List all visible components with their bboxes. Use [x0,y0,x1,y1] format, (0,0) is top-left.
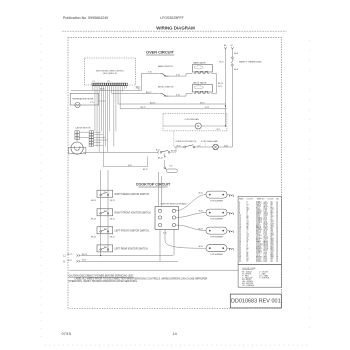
svg-text:R-75: R-75 [205,107,209,109]
svg-text:TOP BURNER: TOP BURNER [210,237,224,239]
svg-text:Y-75: Y-75 [169,165,172,167]
svg-text:Publication No. 5995664249: Publication No. 5995664249 [63,16,108,20]
svg-text:W-25: W-25 [199,228,203,230]
svg-text:W-75: W-75 [82,260,86,262]
svg-text:BK: BK [224,45,227,47]
svg-text:W-25: W-25 [199,210,203,212]
svg-text:W2: W2 [271,261,273,263]
svg-text:4-75: 4-75 [176,75,180,77]
svg-text:LEFT REAR IGNITOR SWITCH.: LEFT REAR IGNITOR SWITCH. [115,248,149,251]
svg-text:RIGHT REAR IGNITOR SWITCH.: RIGHT REAR IGNITOR SWITCH. [115,193,150,196]
svg-text:M: M [197,125,199,128]
svg-text:P2: P2 [108,81,110,83]
svg-text:L1: L1 [63,256,66,258]
svg-text:LABEL ALL WIRES PRIOR TO DISCO: LABEL ALL WIRES PRIOR TO DISCONNECTION W… [75,277,208,280]
svg-text:14: 14 [276,261,278,263]
svg-text:BK-25: BK-25 [91,237,96,239]
svg-text:DD010683 REV 001: DD010683 REV 001 [231,299,281,305]
svg-text:Y-75: Y-75 [148,71,152,73]
svg-text:BROIL VALVE: BROIL VALVE [193,82,207,85]
svg-text:WIRE NO: WIRE NO [257,199,265,201]
svg-text:GA: GA [276,198,279,201]
svg-text:W: W [231,45,233,47]
svg-text:BK-W: BK-W [171,151,176,153]
svg-text:4-75: 4-75 [176,95,180,97]
svg-text:COLOR: COLOR [267,199,274,201]
svg-text:OR-25: OR-25 [110,237,115,239]
svg-text:COOLING FAN: COOLING FAN [184,118,199,121]
svg-text:GY/BU-2: GY/BU-2 [256,261,262,263]
svg-text:BAKE VALVE: BAKE VALVE [193,62,206,65]
svg-text:BU-75: BU-75 [146,92,151,94]
svg-text:W-75: W-75 [68,260,72,262]
svg-text:TOP BURNER: TOP BURNER [210,219,224,221]
svg-text:WIRE: WIRE [239,199,244,201]
svg-text:OR-25: OR-25 [110,219,115,221]
svg-text:IGNITOR MODULE BOARD: IGNITOR MODULE BOARD [161,203,188,206]
svg-text:WIRING DIAGRAM: WIRING DIAGRAM [156,26,195,31]
svg-text:W-75: W-75 [100,89,104,91]
svg-text:14: 14 [173,332,177,336]
svg-text:OVEN DOOR SWITCH: OVEN DOOR SWITCH [176,141,197,143]
svg-text:W-25: W-25 [199,192,203,194]
svg-text:TOP BURNER: TOP BURNER [210,254,224,256]
svg-text:BK-75: BK-75 [143,169,148,171]
svg-text:SAFETY THERMOSTAT: SAFETY THERMOSTAT [239,60,262,63]
svg-text:RIGHT FRONT IGNITOR SWITCH.: RIGHT FRONT IGNITOR SWITCH. [115,212,152,214]
svg-text:W-25: W-25 [199,246,203,248]
svg-text:N: N [63,261,65,263]
svg-text:W-50: W-50 [224,145,228,147]
svg-text:LATCH MOTOR: LATCH MOTOR [76,127,91,130]
svg-text:BAKE IGNITOR: BAKE IGNITOR [158,65,173,68]
svg-text:R-43: R-43 [264,261,267,263]
svg-text:OR - ORANGE: OR - ORANGE [242,284,255,287]
svg-text:BK-25: BK-25 [91,200,96,202]
svg-text:B-50: B-50 [156,150,160,152]
svg-text:Y-75: Y-75 [90,102,94,104]
svg-text:COOKTOP CIRCUIT: COOKTOP CIRCUIT [136,183,171,187]
svg-text:W-75: W-75 [128,165,132,167]
svg-text:W-75: W-75 [136,86,140,88]
svg-text:07/15: 07/15 [62,332,72,336]
svg-text:BK-25: BK-25 [91,219,96,221]
svg-text:P - PURPLE: P - PURPLE [259,277,270,279]
svg-text:TOP BURNER: TOP BURNER [210,201,224,203]
svg-text:P1: P1 [93,81,95,83]
svg-text:COLOR: COLOR [247,199,254,201]
svg-text:OR-25: OR-25 [110,200,115,202]
svg-text:W-75: W-75 [219,61,223,63]
svg-text:LFGS3025PFF: LFGS3025PFF [160,16,184,20]
svg-text:42: 42 [239,261,241,263]
svg-text:W-75: W-75 [200,102,204,104]
svg-text:W-75: W-75 [218,86,222,88]
svg-text:OPERATION. VERIFY PROPER OPERA: OPERATION. VERIFY PROPER OPERATION AFTER… [69,280,138,283]
svg-text:BK-75: BK-75 [68,254,73,256]
svg-text:LEFT FRONT IGNITOR SWITCH.: LEFT FRONT IGNITOR SWITCH. [115,230,150,232]
svg-text:1-75: 1-75 [197,145,200,147]
svg-text:2.5W OVEN LAMP: 2.5W OVEN LAMP [201,140,219,143]
svg-text:(EOC) ESEC 30: (EOC) ESEC 30 [103,73,117,75]
svg-text:BK-8: BK-8 [234,53,238,55]
svg-text:W-7: W-7 [217,129,220,131]
svg-text:BK-75: BK-75 [82,254,87,256]
svg-text:W-75: W-75 [177,145,181,147]
svg-text:BROIL IGNITOR: BROIL IGNITOR [158,87,174,89]
svg-text:OR-75: OR-75 [140,107,146,109]
svg-text:OVEN CIRCUIT: OVEN CIRCUIT [146,50,175,55]
svg-text:BK-50: BK-50 [158,157,163,159]
svg-text:BK-8: BK-8 [234,69,238,71]
svg-text:TEMPERATURE PROBE: TEMPERATURE PROBE [72,97,94,100]
svg-text:BU-75: BU-75 [150,102,155,104]
